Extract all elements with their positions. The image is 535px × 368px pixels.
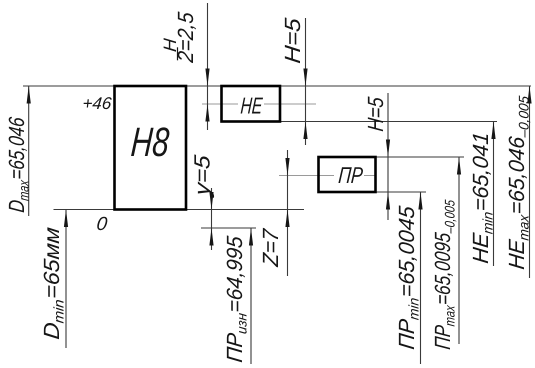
leader NEmin bbox=[493, 122, 495, 267]
top limit line Dmax 65,046 bbox=[23, 85, 531, 87]
leader NEmax bbox=[529, 86, 531, 278]
svg-text:ПРmax=65,0095–0,005: ПРmax=65,0095–0,005 bbox=[430, 198, 457, 351]
svg-text:Dmin=65мм: Dmin=65мм bbox=[39, 226, 66, 341]
label PRmin=65,0045 bbox=[394, 204, 421, 351]
svg-text:Dmax=65,046: Dmax=65,046 bbox=[4, 115, 31, 213]
PR top limit extension line bbox=[375, 156, 464, 158]
svg-text:ПР: ПР bbox=[337, 163, 364, 189]
wear limit line PRizn 64,995 bbox=[201, 227, 256, 229]
leader PRmax bbox=[458, 157, 460, 344]
dimension H=5 of PR bbox=[387, 93, 389, 220]
svg-text:2=2,5: 2=2,5 bbox=[173, 10, 198, 64]
PR gauge tolerance box bbox=[319, 157, 376, 192]
label +46 bbox=[82, 94, 113, 113]
NE gauge tolerance box bbox=[222, 86, 281, 122]
label H8 bbox=[129, 119, 170, 165]
svg-text:H=5: H=5 bbox=[280, 16, 305, 64]
leader PRmin bbox=[420, 192, 422, 364]
label NEmin=65,041 bbox=[468, 131, 495, 265]
leader Dmin bbox=[65, 210, 67, 349]
svg-text:H=5: H=5 bbox=[363, 95, 388, 132]
svg-text:НЕmin=65,041: НЕmin=65,041 bbox=[468, 131, 495, 265]
label PR bbox=[337, 163, 364, 189]
dimension H/2=2,5 bbox=[207, 3, 209, 130]
NE gauge centerline bbox=[202, 103, 316, 105]
dimension Z=7 bbox=[287, 150, 289, 276]
svg-text:0: 0 bbox=[95, 214, 108, 235]
label NE bbox=[240, 94, 264, 120]
PR gauge centerline bbox=[279, 175, 375, 177]
svg-text:y=5: y=5 bbox=[190, 153, 215, 199]
svg-text:ПРmin=65,0045: ПРmin=65,0045 bbox=[394, 204, 421, 351]
zero line Dmin 65 bbox=[54, 209, 305, 211]
svg-text:+46: +46 bbox=[82, 94, 113, 113]
label 0 bbox=[95, 214, 108, 235]
label PRmax=65,0095-0,005 bbox=[430, 198, 457, 351]
PR bottom limit extension line bbox=[375, 191, 426, 193]
dimension H=5 of NE bbox=[305, 18, 307, 145]
svg-text:H8: H8 bbox=[129, 119, 170, 165]
svg-text:НЕ: НЕ bbox=[240, 94, 264, 120]
label Dmin=65mm bbox=[39, 226, 66, 341]
dimension y=5 bbox=[211, 188, 213, 250]
leader Dmax bbox=[28, 86, 30, 216]
svg-text:НЕmax=65,046–0,005: НЕmax=65,046–0,005 bbox=[504, 94, 531, 271]
NE bottom limit extension line bbox=[280, 121, 497, 123]
label PRizn=64,995 bbox=[222, 234, 249, 364]
leader PRizn bbox=[250, 228, 252, 364]
tolerance zone H8 box bbox=[115, 86, 187, 210]
svg-text:ПРизн=64,995: ПРизн=64,995 bbox=[222, 234, 249, 364]
label NEmax=65,046-0,005 bbox=[504, 94, 531, 271]
label Dmax=65,046 bbox=[4, 115, 31, 213]
svg-text:Z=7: Z=7 bbox=[258, 227, 283, 268]
